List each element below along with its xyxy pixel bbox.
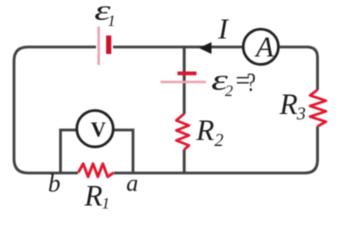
wire outer loop left: top-left corner, left side, bottom-left corner, bottom to node b and R1 [14, 47, 96, 173]
battery E2 short thick plate (dark red) [178, 72, 197, 76]
wire voltmeter loop left: node b up to voltmeter left [61, 130, 77, 173]
wire middle branch upper: junction at top wire through battery E2 to R2 top [183, 46, 186, 114]
svg-text:A: A [254, 32, 274, 64]
battery E1 short thick plate (dark red) [106, 36, 111, 55]
wire top right: ammeter right to top-right corner down to R3 top [279, 47, 318, 90]
wire middle branch lower: R2 bottom to bottom wire junction [183, 150, 186, 174]
svg-text:1: 1 [102, 196, 110, 213]
svg-text:2: 2 [225, 83, 233, 100]
svg-text:V: V [91, 118, 106, 142]
svg-text:1: 1 [108, 13, 116, 30]
battery E2 long plate (pink) [161, 81, 207, 83]
wire voltmeter loop right: voltmeter right down to node a [114, 130, 134, 173]
svg-text:R: R [84, 181, 103, 213]
svg-text:3: 3 [296, 104, 306, 124]
battery E1 long plate (pink) [97, 27, 100, 66]
svg-text:R: R [279, 89, 298, 121]
svg-text:R: R [195, 115, 214, 147]
svg-text:?: ? [247, 68, 256, 97]
ammeter A circle [243, 29, 278, 64]
resistor R2 zigzag [176, 114, 189, 150]
wire bottom right: from R1 right end along bottom, bottom-right corner, up to R3 bottom [114, 126, 318, 173]
resistor R1 zigzag [78, 164, 113, 177]
wire top middle: battery E1 right plate to ammeter left [113, 46, 243, 49]
svg-text:b: b [48, 170, 61, 197]
svg-text:2: 2 [215, 130, 224, 150]
resistor R3 zigzag [310, 90, 326, 127]
svg-text:I: I [217, 13, 229, 45]
voltmeter V circle [77, 111, 113, 147]
current arrow head pointing left [199, 42, 212, 54]
svg-text:a: a [126, 171, 138, 197]
